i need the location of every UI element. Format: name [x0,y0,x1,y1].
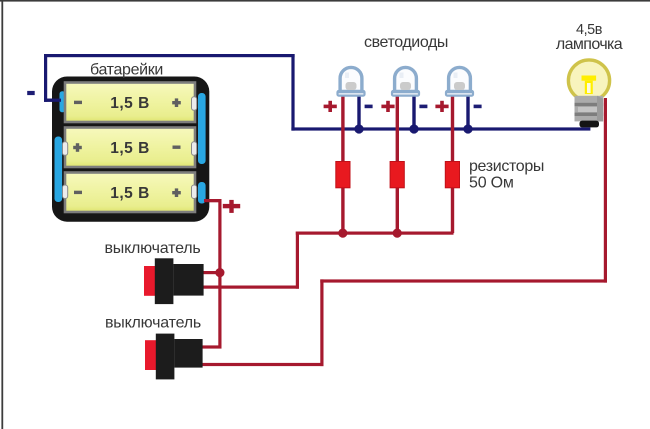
junction: resistor R2 on bus [393,229,402,238]
battery terminal nubs [63,97,197,199]
wire: switch S2 top terminal lead [195,345,222,348]
LED D2 [392,67,419,95]
svg-text:1,5 В: 1,5 В [110,140,150,157]
label: LED D2 plus [381,101,394,112]
label: LED D3 plus [435,101,448,112]
wire: LED D2 anode lead through resistor R2 [396,94,399,233]
wire: negative top horizontal run [44,54,295,57]
battery cell 1 (1,5 V) [65,83,195,123]
wire: LED D1 cathode lead [357,94,360,129]
svg-text:1,5 В: 1,5 В [110,95,150,112]
svg-text:выключатель: выключатель [104,240,200,257]
resistor R2 [390,162,404,188]
wire: negative LED cathode bus to lamp [291,127,590,130]
wire: switch S2 bottom terminal lead [195,363,324,366]
label: LED D3 minus [474,105,482,109]
wire: LED D2 cathode lead [412,94,415,129]
wire: positive exit overlay from battery terminal [204,199,222,202]
wire: horizontal run to lamp [320,279,607,282]
junction: resistor R1 on bus [338,229,347,238]
lamp: glass bulb [568,60,609,101]
switch S1 [144,258,204,304]
battery cell 3 (1,5 V) [65,173,195,213]
wire: switch S1 bottom terminal lead [195,286,299,289]
lamp: bottom contact [580,121,600,128]
wire: LED D1 anode lead through resistor R1 [341,94,344,233]
wire: resistor positive bus [296,232,454,235]
wire: negative vertical drop to LED cathode bus [291,54,294,131]
resistor R3 [445,162,459,188]
junction: LED D2 cathode on bus [409,124,418,133]
wire: vertical riser S2 to lamp run [320,279,323,366]
LED D3 [446,67,473,95]
wire: negative vertical riser left of battery [44,54,47,102]
lamp: screw base [575,96,604,122]
wire: plus feed vertical to switches [218,199,221,347]
switch S2 [145,334,203,380]
label: LED D2 minus [419,105,427,109]
svg-text:лампочка: лампочка [556,36,623,53]
wire: negative stub overlay into battery terminal [44,99,61,102]
wire: battery plus exit horizontal [203,199,222,202]
wire: negative stub from battery minus terminal [44,99,62,102]
wire: lamp positive vertical [604,98,607,283]
svg-text:резисторы: резисторы [469,158,544,175]
wire: LED D3 anode lead through resistor R3 [451,94,454,233]
label: LED D1 plus [324,101,337,112]
svg-text:выключатель: выключатель [105,315,201,332]
label: LED D1 minus [365,105,373,109]
battery cell 2 (1,5 V) [65,128,195,168]
node: battery plus label [223,200,240,213]
LED D1 [338,67,365,95]
battery pack BT1 [52,77,209,222]
junction: LED D1 cathode on bus [354,124,363,133]
junction: plus feed at switch S1 [215,268,224,277]
svg-text:светодиоды: светодиоды [364,34,448,51]
wire: LED D3 cathode lead [466,94,469,129]
wire: vertical from S1 to resistor bus [296,232,299,289]
resistor R1 [336,162,350,188]
wire: switch S1 top terminal lead [195,271,222,274]
node: battery minus label [27,91,35,95]
svg-text:батарейки: батарейки [90,62,163,79]
svg-text:50 Ом: 50 Ом [469,175,514,192]
svg-text:1,5 В: 1,5 В [110,185,150,202]
junction: LED D3 cathode on bus [463,124,472,133]
